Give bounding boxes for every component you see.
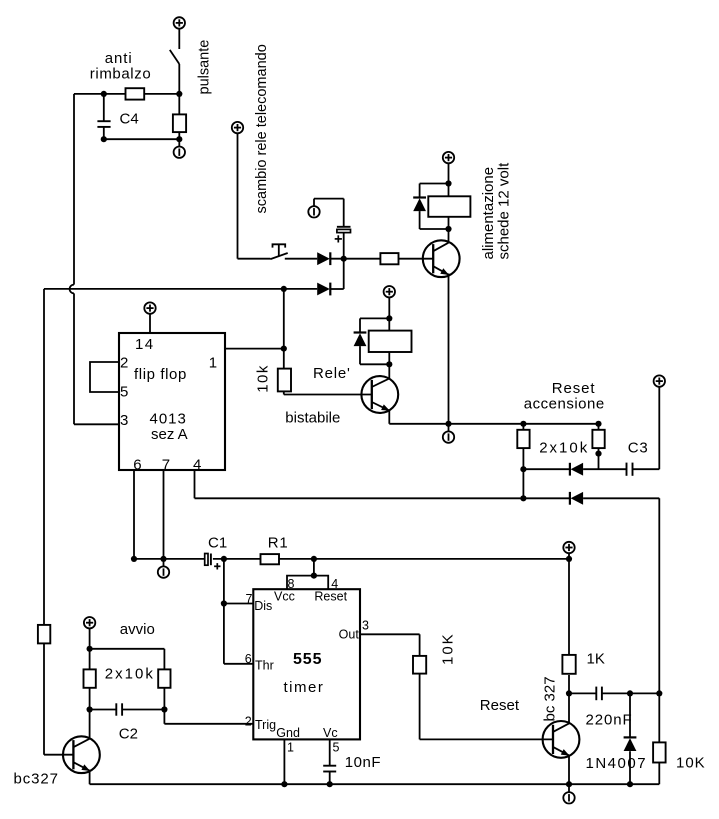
svg-text:5: 5 (120, 384, 128, 401)
svg-text:avvio: avvio (120, 621, 155, 638)
svg-text:Reset: Reset (314, 590, 347, 604)
svg-text:4: 4 (193, 457, 201, 474)
svg-text:1: 1 (287, 740, 294, 754)
svg-text:Vc: Vc (323, 726, 338, 740)
svg-text:2x10k: 2x10k (539, 440, 589, 457)
svg-text:C3: C3 (628, 440, 649, 457)
svg-text:anti: anti (105, 50, 133, 67)
svg-text:Trig: Trig (255, 718, 276, 732)
svg-text:C2: C2 (119, 726, 138, 743)
svg-text:bc327: bc327 (14, 771, 59, 788)
svg-text:C1: C1 (208, 534, 227, 551)
svg-text:3: 3 (120, 412, 128, 429)
svg-text:schede 12 volt: schede 12 volt (496, 162, 513, 260)
svg-text:alimentazione: alimentazione (480, 167, 497, 260)
svg-text:bc 327: bc 327 (542, 676, 559, 721)
svg-text:10k: 10k (255, 364, 272, 393)
svg-text:Out: Out (339, 628, 360, 642)
svg-text:14: 14 (135, 336, 155, 353)
svg-text:3: 3 (362, 618, 369, 632)
svg-text:Dis: Dis (254, 599, 272, 613)
svg-text:1K: 1K (587, 651, 605, 668)
svg-text:10nF: 10nF (345, 754, 381, 771)
svg-text:7: 7 (162, 457, 170, 474)
svg-text:6: 6 (133, 457, 141, 474)
svg-text:5: 5 (333, 740, 340, 754)
svg-text:2: 2 (245, 714, 252, 728)
svg-text:2: 2 (120, 354, 128, 371)
svg-text:Rele': Rele' (313, 365, 351, 382)
svg-text:C4: C4 (120, 111, 139, 128)
svg-text:7: 7 (246, 592, 253, 606)
svg-text:flip flop: flip flop (134, 366, 187, 383)
svg-text:Reset: Reset (480, 697, 520, 714)
svg-text:timer: timer (284, 679, 325, 696)
svg-text:6: 6 (245, 652, 252, 666)
svg-text:sez A: sez A (151, 426, 188, 443)
svg-text:2x10k: 2x10k (105, 666, 155, 683)
svg-text:Thr: Thr (255, 659, 274, 673)
svg-text:1: 1 (209, 354, 217, 371)
svg-text:10K: 10K (676, 755, 706, 772)
svg-text:555: 555 (293, 651, 322, 668)
svg-text:R1: R1 (268, 534, 289, 551)
svg-text:scambio rele telecomando: scambio rele telecomando (254, 44, 270, 213)
svg-text:Gnd: Gnd (276, 726, 300, 740)
svg-text:Vcc: Vcc (274, 590, 295, 604)
svg-text:1N4007: 1N4007 (586, 755, 648, 772)
svg-text:pulsante: pulsante (197, 40, 213, 95)
svg-text:accensione: accensione (524, 395, 605, 412)
svg-text:rimbalzo: rimbalzo (90, 66, 151, 83)
svg-text:bistabile: bistabile (285, 410, 340, 427)
svg-text:220nF: 220nF (586, 712, 633, 729)
svg-text:4013: 4013 (150, 411, 187, 428)
svg-text:10K: 10K (440, 632, 457, 665)
